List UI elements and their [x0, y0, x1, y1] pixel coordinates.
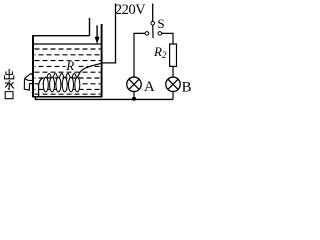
svg-text:B: B — [182, 79, 192, 95]
switch S : left contact — [145, 32, 149, 36]
water (dashed lines) — [35, 49, 101, 94]
bottom rail wire — [35, 97, 173, 100]
supply left wire (to heater R) — [102, 4, 116, 63]
svg-text:2: 2 — [162, 50, 167, 60]
出 — [8, 69, 10, 79]
tank rim (water top line) — [32, 43, 101, 45]
水 — [8, 80, 9, 89]
heating coil resistor R : left lead — [39, 78, 44, 97]
switch S : top contact — [151, 21, 155, 25]
tank bottom — [32, 96, 102, 98]
tank inlet chimney left wall — [89, 18, 91, 36]
switch S : right contact — [158, 32, 162, 36]
tank right wall (rises to inlet) — [101, 24, 103, 97]
label 出水口 (outlet) drawn strokes — [5, 69, 14, 99]
wire from right contact to R2 — [162, 33, 173, 44]
wire lamp A to bottom rail — [133, 92, 135, 100]
tank lid (top-left double line) — [32, 35, 89, 37]
lamp A — [127, 77, 142, 92]
switch S : lever — [152, 25, 154, 38]
svg-text:R: R — [65, 58, 74, 73]
wire lamp B to bottom rail — [172, 92, 174, 100]
svg-text:R: R — [153, 44, 162, 59]
label R (heating element) — [66, 61, 76, 70]
svg-text:220V: 220V — [115, 2, 146, 18]
wire R2 to lamp B — [172, 66, 174, 77]
svg-text:S: S — [157, 16, 164, 31]
junction node under lamp A — [132, 97, 136, 101]
supply right wire (to switch) — [152, 4, 154, 22]
口 — [5, 92, 13, 99]
svg-text:A: A — [144, 79, 155, 95]
lamp B — [166, 77, 181, 92]
heating coil resistor R : right lead to wall — [78, 63, 102, 77]
resistor R2 — [170, 44, 177, 66]
water inlet arrow — [95, 25, 100, 44]
tank left wall — [32, 36, 34, 97]
wire from left contact to lamp A — [134, 33, 145, 77]
heating coil resistor R : loops — [43, 73, 80, 91]
faucet (outlet tap) — [24, 73, 33, 90]
